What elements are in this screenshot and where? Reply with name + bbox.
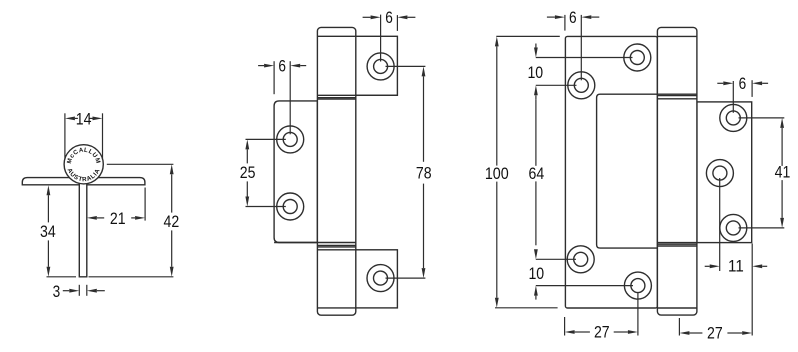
- right view: knuckle end cap lines: [657, 36, 697, 308]
- dim 27 left: leaf edge extension tick: [564, 317, 566, 336]
- svg-text:3: 3: [53, 283, 61, 301]
- dim 14: label text: [76, 111, 92, 129]
- svg-text:100: 100: [485, 165, 509, 183]
- dim 14: knuckle width, extension lines: [65, 113, 103, 159]
- right view: large left leaf plate: [565, 36, 657, 308]
- dim 64: label text: [529, 165, 545, 183]
- side view: frame leaf (horizontal plate): [22, 178, 145, 185]
- dim 27 right: leaf edge extension line: [751, 244, 753, 336]
- dim 41: leader from bottom hole: [739, 227, 785, 229]
- svg-text:6: 6: [385, 9, 393, 27]
- mid view: bottom flag screw hole: [367, 265, 394, 292]
- svg-text:14: 14: [76, 111, 92, 129]
- svg-text:10: 10: [527, 64, 543, 82]
- dim 78: leader from top flag hole: [386, 65, 426, 67]
- dim 10 bottom: label text: [528, 265, 544, 283]
- dim 34: dimension line with arrows: [47, 185, 51, 277]
- right view: right leaf top screw hole: [720, 104, 747, 131]
- mid view: bottom right mounting flag: [356, 250, 398, 308]
- dim 10 top: leader to hole B: [536, 57, 633, 59]
- dim 78: dimension line with arrows: [422, 66, 426, 278]
- right view: right leaf middle screw hole: [706, 160, 733, 187]
- right view: bottom knuckle junction lines: [657, 243, 697, 246]
- dim 27 left: dimension line with arrows: [565, 330, 638, 334]
- dim 3: extension ticks at door leaf thickness: [79, 285, 87, 296]
- mid view: left leaf plate: [274, 101, 317, 243]
- side view: knuckle circle with McCALLUM AUSTRALIA stamp: [64, 145, 103, 184]
- right view: left leaf upper-left screw hole A: [568, 72, 595, 99]
- dim 11: label text: [728, 258, 744, 276]
- dim 100: dimension line with arrows: [495, 36, 499, 307]
- svg-text:21: 21: [110, 210, 126, 228]
- mid dim 6 top: label text: [385, 9, 393, 27]
- svg-text:64: 64: [529, 165, 545, 183]
- mid dim 6 left: leaf edge extension line: [273, 61, 275, 94]
- dim 21: dimension line with arrows: [87, 216, 145, 220]
- side view: door leaf (vertical plate): [79, 172, 87, 277]
- dim 41: label text: [775, 164, 791, 182]
- dim 10 top: label text: [527, 64, 543, 82]
- svg-text:11: 11: [728, 258, 744, 276]
- right view: top knuckle junction lines: [657, 94, 697, 99]
- dim 100: top extension line: [496, 35, 560, 37]
- dim 25: dimension line with arrows: [245, 139, 249, 206]
- dim 41: leader from top hole: [739, 117, 785, 119]
- right dim 6 top: hole A centre extension line: [580, 15, 582, 80]
- svg-text:41: 41: [775, 164, 791, 182]
- mid view: top right mounting flag: [356, 36, 398, 95]
- right leaf dim 6: leaf edge extension line: [751, 80, 753, 97]
- right view: right leaf bottom screw hole: [720, 214, 747, 241]
- right leaf dim 6: label text: [739, 75, 747, 93]
- right dim 6 top: outside arrows: [547, 15, 599, 19]
- mid view: left leaf lower screw hole: [277, 193, 304, 220]
- dim 34: label text: [40, 223, 56, 241]
- mid dim 6 left: label text: [278, 58, 286, 76]
- svg-text:25: 25: [240, 164, 256, 182]
- right view: left leaf lower-left screw hole C: [567, 246, 594, 273]
- dim 11: middle hole centre extension line: [719, 178, 721, 271]
- dim 27 left: label text: [594, 323, 610, 341]
- dim 27 left: hole D centre extension line: [637, 292, 639, 335]
- dim 10 top: outside arrows: [534, 44, 538, 100]
- dim 14: dimension line with arrows: [65, 117, 103, 121]
- dim 25: leader lines to left leaf holes: [246, 139, 286, 206]
- right view: right leaf plate: [697, 102, 752, 243]
- right leaf dim 6: hole centre extension line: [732, 81, 734, 113]
- mid view: left leaf upper screw hole: [277, 126, 304, 153]
- right view: knuckle barrel column: [657, 27, 697, 315]
- dim 21: label text: [110, 210, 126, 228]
- dim 78: label text: [416, 164, 432, 182]
- svg-text:78: 78: [416, 164, 432, 182]
- dim 11: outside arrows: [705, 264, 768, 268]
- svg-text:27: 27: [707, 324, 723, 342]
- mid view: knuckle end cap lines: [317, 36, 355, 308]
- right dim 6 top: label text: [569, 9, 577, 27]
- dim 42: dimension line with arrows: [170, 164, 174, 276]
- dim 64: dimension line with arrows: [534, 99, 538, 259]
- dim 78: leader from bottom flag hole: [386, 277, 426, 279]
- dim 3: arrows pointing inward: [63, 289, 105, 293]
- dim 100: label text: [485, 165, 509, 183]
- right dim 6 top: leaf edge extension line: [564, 15, 566, 31]
- right leaf dim 6: outside arrows: [717, 81, 768, 85]
- right view: left leaf lower-mid screw hole D: [624, 272, 651, 299]
- mid view: top flag screw hole: [367, 53, 394, 80]
- dim 100: bottom extension line: [495, 307, 558, 309]
- dim 27 right: pin centre extension tick: [678, 318, 680, 336]
- svg-text:6: 6: [739, 75, 747, 93]
- right view: left leaf upper-right screw hole B: [624, 44, 651, 71]
- svg-text:10: 10: [528, 265, 544, 283]
- dim 42: label text: [164, 213, 180, 231]
- dim 3: label text: [53, 283, 61, 301]
- mid dim 6 left: hole centre extension line: [289, 61, 291, 134]
- dim 21: extension line under frame leaf end: [144, 188, 146, 221]
- svg-text:27: 27: [594, 323, 610, 341]
- dim 10 bottom: leader to hole D: [536, 285, 633, 287]
- svg-text:6: 6: [569, 9, 577, 27]
- dim 41: dimension line with arrows: [780, 118, 784, 228]
- dim 10 top: leader to hole A: [536, 84, 577, 86]
- dim 27 right: label text: [707, 324, 723, 342]
- svg-text:42: 42: [164, 213, 180, 231]
- mid dim 6 left: outside arrows: [258, 64, 306, 68]
- dim 27 right: dimension line with arrows: [679, 331, 752, 335]
- mid dim 6 top: hole centre extension line: [380, 15, 382, 62]
- mid view: top knuckle junction lines: [317, 95, 397, 99]
- svg-text:6: 6: [278, 58, 286, 76]
- mid dim 6 top: flag edge extension line: [396, 15, 398, 31]
- extension baseline under door leaf (for dims 34 and 42): [47, 276, 174, 278]
- dim 10 bottom: outside arrow: [534, 286, 538, 300]
- mid dim 6 top: outside arrows: [363, 15, 416, 19]
- dim 25: label text: [240, 164, 256, 182]
- dim 10 bottom: leader to hole C: [536, 258, 576, 260]
- svg-text:34: 34: [40, 223, 56, 241]
- mid view: bottom knuckle junction lines: [274, 243, 356, 250]
- dim 42: top extension line from knuckle centre: [107, 163, 174, 165]
- mid view: knuckle barrel column: [317, 27, 355, 315]
- right view: leaf recess cut-out: [597, 94, 658, 248]
